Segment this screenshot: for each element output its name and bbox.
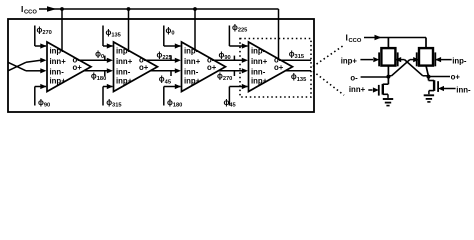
svg-text:inp+: inp+: [251, 77, 268, 86]
svg-text:ϕ180: ϕ180: [91, 71, 106, 82]
svg-text:o+: o+: [207, 63, 217, 72]
svg-text:inn+: inn+: [349, 85, 366, 94]
svg-text:inn+: inn+: [116, 57, 133, 66]
svg-text:inp+: inp+: [341, 56, 358, 65]
svg-text:ϕ135: ϕ135: [106, 28, 121, 39]
svg-text:ϕ0: ϕ0: [166, 26, 175, 37]
svg-text:inp-: inp-: [116, 46, 131, 55]
svg-text:ϕ45: ϕ45: [159, 75, 171, 86]
svg-text:inp+: inp+: [50, 77, 67, 86]
svg-text:CCO: CCO: [24, 10, 37, 16]
svg-text:ϕ135: ϕ135: [291, 72, 306, 83]
svg-text:ϕ180: ϕ180: [167, 98, 182, 109]
svg-text:ϕ225: ϕ225: [157, 50, 172, 61]
svg-text:inp-: inp-: [50, 46, 65, 55]
svg-text:inn+: inn+: [184, 57, 201, 66]
svg-text:inn-: inn-: [50, 67, 65, 76]
svg-text:inn+: inn+: [251, 57, 268, 66]
svg-text:o+: o+: [451, 72, 461, 81]
svg-text:o-: o-: [350, 74, 358, 83]
svg-text:inp-: inp-: [452, 56, 467, 65]
svg-text:inp-: inp-: [184, 46, 199, 55]
svg-text:inp-: inp-: [251, 46, 266, 55]
svg-text:o+: o+: [274, 63, 284, 72]
svg-text:ϕ225: ϕ225: [232, 23, 247, 34]
svg-text:o+: o+: [73, 63, 83, 72]
svg-text:inn-: inn-: [251, 67, 266, 76]
svg-text:inn-: inn-: [184, 67, 199, 76]
svg-text:ϕ0: ϕ0: [95, 50, 104, 61]
svg-text:ϕ315: ϕ315: [289, 50, 304, 61]
svg-text:ϕ90: ϕ90: [38, 98, 50, 109]
svg-text:CCO: CCO: [349, 38, 362, 44]
svg-text:inn-: inn-: [456, 85, 471, 94]
svg-text:ϕ270: ϕ270: [217, 71, 232, 82]
svg-text:inp+: inp+: [116, 77, 133, 86]
svg-text:o+: o+: [139, 63, 149, 72]
svg-text:ϕ270: ϕ270: [37, 25, 52, 36]
svg-text:inp+: inp+: [184, 77, 201, 86]
svg-text:ϕ315: ϕ315: [106, 98, 121, 109]
svg-text:inn-: inn-: [116, 67, 131, 76]
svg-text:inn+: inn+: [50, 57, 67, 66]
svg-text:ϕ90: ϕ90: [219, 50, 231, 61]
